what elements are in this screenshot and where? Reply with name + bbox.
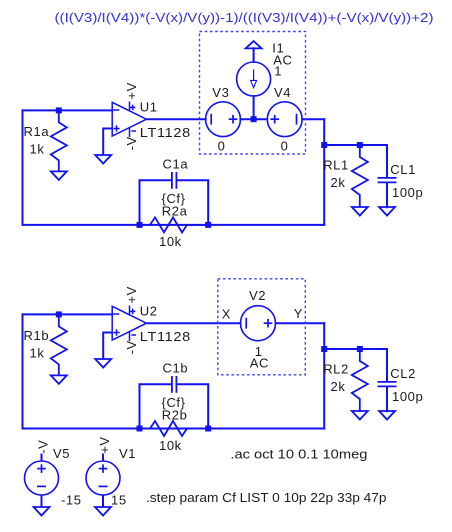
junction RL1 top xyxy=(357,142,363,148)
wire U1 output to V3 xyxy=(148,118,206,120)
svg-text:RL2: RL2 xyxy=(323,362,349,377)
wire I1 top stub to flipped ground xyxy=(253,48,255,62)
junction right rail / branch (bottom) xyxy=(321,346,327,352)
voltage source V1 xyxy=(86,461,120,495)
junction feedback left xyxy=(137,222,143,228)
svg-text:V3: V3 xyxy=(212,85,229,100)
svg-text:V2: V2 xyxy=(249,288,266,303)
ground below V1 xyxy=(95,507,111,516)
wire feedback bottom (bottom circuit) xyxy=(23,428,325,430)
svg-text:LT1128: LT1128 xyxy=(140,329,191,344)
wire V2 to right rail (node Y) xyxy=(276,322,325,324)
wire I1 bottom stub to V3/V4 node xyxy=(253,96,255,119)
svg-text:AC: AC xyxy=(250,356,269,371)
ground below RL2 xyxy=(352,411,368,420)
svg-text:1: 1 xyxy=(274,64,282,79)
resistor R2a xyxy=(140,217,209,232)
wire left rail vertical (bottom circuit) xyxy=(22,314,24,428)
U2 V+ pin plus mark xyxy=(130,310,135,312)
svg-text:V5: V5 xyxy=(53,446,70,461)
svg-text:R1b: R1b xyxy=(24,328,50,343)
junction feedback left (bottom) xyxy=(137,426,143,432)
ground at U2 plus input xyxy=(95,359,111,368)
svg-text:V1: V1 xyxy=(119,446,136,461)
svg-text:0: 0 xyxy=(281,138,289,153)
voltage source V2 xyxy=(241,306,276,341)
capacitor C1b loop wires xyxy=(140,384,209,428)
ground below CL1 xyxy=(379,207,395,216)
wire CL2 bottom stub xyxy=(386,387,388,411)
ground below R1a xyxy=(51,171,67,180)
ground below R1b xyxy=(51,375,67,384)
ground below RL1 xyxy=(352,207,368,216)
svg-text:.ac oct 10 0.1 10meg: .ac oct 10 0.1 10meg xyxy=(230,446,367,461)
ground below V5 xyxy=(34,507,50,516)
svg-text:CL2: CL2 xyxy=(390,366,416,381)
wire U2 plus input to ground xyxy=(103,333,112,360)
wire V4 to right rail xyxy=(302,118,324,120)
wire V5 top stub xyxy=(41,454,43,462)
svg-text:LT1128: LT1128 xyxy=(140,125,191,140)
wire RL1/CL1 branch horizontal xyxy=(324,144,387,146)
svg-text:-V: -V xyxy=(124,136,139,150)
U2 V- pin minus mark xyxy=(131,334,136,336)
svg-text:2k: 2k xyxy=(331,379,346,394)
capacitor C1a plates xyxy=(172,172,177,189)
wire left rail vertical (top circuit) xyxy=(22,110,24,224)
svg-text:-15: -15 xyxy=(61,493,82,508)
wire CL1 bottom stub xyxy=(386,183,388,207)
svg-text:U1: U1 xyxy=(140,100,158,115)
U2 plus input mark xyxy=(113,332,119,334)
svg-text:R1a: R1a xyxy=(24,124,50,139)
capacitor C1b plates xyxy=(172,376,177,393)
wire U1 plus input to ground xyxy=(103,129,112,156)
svg-text:+V: +V xyxy=(124,82,139,99)
U1 V- pin minus mark xyxy=(131,130,136,132)
svg-text:R2a: R2a xyxy=(162,204,188,219)
junction feedback right (bottom) xyxy=(205,426,211,432)
current source I1 xyxy=(237,62,271,96)
svg-text:CL1: CL1 xyxy=(390,162,416,177)
wire CL2 top stub xyxy=(386,349,388,382)
wire feedback bottom (top circuit) xyxy=(23,224,325,226)
svg-text:0: 0 xyxy=(218,138,226,153)
flipped ground above I1 xyxy=(246,41,262,48)
U1 minus input mark xyxy=(113,109,119,111)
wire right rail vertical (top circuit) xyxy=(323,119,325,225)
junction V3/V4/I1 node xyxy=(251,116,257,122)
voltage source V3 xyxy=(206,102,241,137)
U1 V+ pin plus mark xyxy=(130,106,135,108)
junction RL2 top xyxy=(357,346,363,352)
svg-text:C1b: C1b xyxy=(163,360,189,375)
junction right rail / branch xyxy=(321,142,327,148)
svg-text:10k: 10k xyxy=(159,234,182,249)
U1 plus input mark xyxy=(113,128,119,130)
wire top-left horizontal (U2 -in net) xyxy=(23,313,113,315)
wire U2 output to V2 (node X) xyxy=(148,322,241,324)
capacitor CL1 plates xyxy=(378,178,397,183)
resistor RL1 xyxy=(352,145,368,207)
svg-text:10k: 10k xyxy=(159,438,182,453)
resistor R1a xyxy=(51,110,67,171)
svg-text:-V: -V xyxy=(124,340,139,354)
svg-text:.step param Cf LIST 0 10p 22p: .step param Cf LIST 0 10p 22p 33p 47p xyxy=(146,490,387,505)
ground below CL2 xyxy=(379,411,395,420)
svg-text:((I(V3)/I(V4))*(-V(x)/V(y))-1): ((I(V3)/I(V4))*(-V(x)/V(y))-1)/((I(V3)/I… xyxy=(55,11,434,25)
svg-text:2k: 2k xyxy=(331,175,346,190)
op-amp U2 xyxy=(112,306,146,342)
junction R1b top node xyxy=(56,311,62,317)
svg-text:C1a: C1a xyxy=(163,156,189,171)
svg-text:X: X xyxy=(222,306,231,321)
wire V3 to V4 xyxy=(240,118,267,120)
U2 minus input mark xyxy=(113,313,119,315)
resistor R1b xyxy=(51,314,67,375)
wire V5 bottom stub xyxy=(41,495,43,507)
voltage source V4 xyxy=(267,102,302,137)
svg-text:15: 15 xyxy=(111,493,127,508)
svg-text:V4: V4 xyxy=(274,85,291,100)
junction feedback right xyxy=(205,222,211,228)
dashed annotation box around V3/V4/I1 xyxy=(200,32,306,155)
svg-text:-V: -V xyxy=(35,440,50,454)
svg-text:Y: Y xyxy=(294,306,303,321)
resistor R2b xyxy=(140,421,209,436)
ground at U1 plus input xyxy=(95,155,111,164)
resistor RL2 xyxy=(352,349,368,411)
junction R1a top node xyxy=(56,107,62,113)
voltage source V5 xyxy=(25,461,59,495)
svg-text:R2b: R2b xyxy=(162,408,188,423)
svg-text:+V: +V xyxy=(97,436,112,453)
wire V1 top stub xyxy=(102,454,104,462)
svg-text:+V: +V xyxy=(124,286,139,303)
svg-text:100p: 100p xyxy=(392,185,423,200)
wire CL1 top stub xyxy=(386,145,388,178)
wire RL2/CL2 branch horizontal xyxy=(324,348,387,350)
wire V1 bottom stub xyxy=(102,495,104,507)
svg-text:1k: 1k xyxy=(30,346,45,361)
svg-text:U2: U2 xyxy=(140,304,158,319)
svg-text:100p: 100p xyxy=(392,389,423,404)
capacitor C1a loop wires xyxy=(140,180,209,225)
capacitor CL2 plates xyxy=(378,382,397,387)
svg-text:1k: 1k xyxy=(30,142,45,157)
op-amp U1 xyxy=(112,102,146,138)
wire right rail vertical (bottom circuit) xyxy=(323,323,325,428)
dashed annotation box around V2 xyxy=(218,279,305,375)
wire top-left horizontal (U1 -in net) xyxy=(23,109,113,111)
svg-text:RL1: RL1 xyxy=(323,158,349,173)
